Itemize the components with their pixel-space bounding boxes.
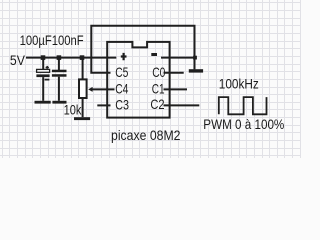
wire C5 to ground loop (top) [91,26,194,73]
ground at IC minus pin [189,69,203,72]
svg-text:C3: C3 [115,96,129,112]
pin label minus [151,53,157,56]
IC notch [132,41,148,48]
node 100µF capacitor / 5V rail [41,55,46,60]
ground under 100nF capacitor [52,101,66,104]
wire pin C0 stub [164,72,184,74]
svg-text:PWM 0 à 100%: PWM 0 à 100% [203,116,284,132]
node potentiometer / 5V rail [80,55,85,60]
svg-text:100µF100nF: 100µF100nF [20,32,84,48]
potentiometer RV1 10k [79,59,115,118]
wire minus pin to ground [161,57,195,59]
ground under 100µF capacitor [35,101,51,104]
IC U1 picaxe 08M2 body [107,42,169,118]
svg-text:5V: 5V [10,52,26,68]
wire pin C3 stub [97,104,110,106]
svg-text:picaxe 08M2: picaxe 08M2 [111,127,181,143]
wire pin C2 stub (PWM output) [164,104,200,106]
svg-text:C4: C4 [115,80,128,96]
node 100nF capacitor / 5V rail [57,55,62,60]
pin label plus [121,53,127,60]
svg-text:10k: 10k [64,101,83,117]
svg-text:100kHz: 100kHz [219,76,259,92]
capacitor 100µF electrolytic [36,59,49,101]
svg-text:C5: C5 [115,64,128,80]
ground under potentiometer [74,117,90,120]
wire pin C1 stub [164,88,188,90]
wire 5V rail [26,57,116,59]
PWM square waveform [219,97,267,114]
node minus pin / ground wire [193,56,197,60]
svg-text:C1: C1 [152,80,165,96]
capacitor 100nF [52,59,67,101]
svg-text:C2: C2 [150,96,164,112]
